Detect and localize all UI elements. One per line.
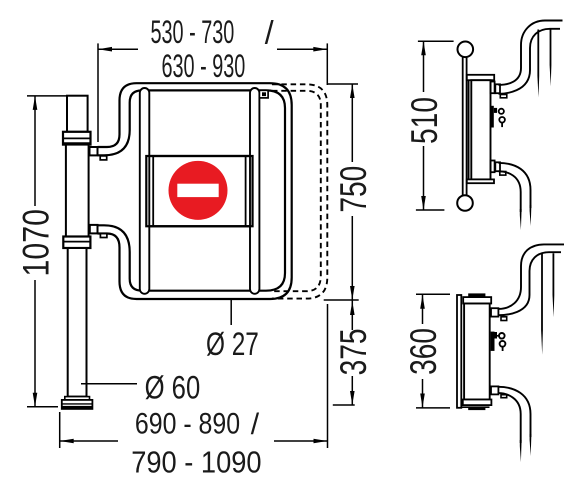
upper bracket bbox=[491, 82, 495, 94]
svg-text:750: 750 bbox=[332, 166, 374, 213]
upper bracket bottom view bbox=[491, 308, 498, 316]
lower arm wall inner bottom view bbox=[498, 393, 520, 443]
lower clip bbox=[500, 172, 506, 176]
dimension 750 bbox=[327, 83, 358, 85]
svg-text:530 - 730: 530 - 730 bbox=[150, 14, 234, 50]
svg-text:/: / bbox=[265, 14, 274, 50]
dimension 360 bbox=[416, 293, 450, 295]
upper clip bottom view bbox=[501, 317, 507, 321]
lock bar bbox=[491, 106, 494, 128]
lower clip bottom view bbox=[501, 395, 507, 398]
post broken lines bottom view bbox=[541, 253, 543, 355]
svg-text:630 - 930: 630 - 930 bbox=[161, 48, 245, 84]
post base plate bbox=[62, 400, 93, 409]
body bbox=[464, 304, 490, 400]
lock bar bottom view bbox=[491, 332, 495, 351]
upper clip bbox=[500, 95, 507, 98]
post middle section bbox=[66, 145, 89, 237]
post base step bbox=[65, 397, 90, 400]
dimension 510 bbox=[418, 40, 454, 42]
post broken lines top view bbox=[537, 30, 539, 98]
gate frame outer outline with swing arms bbox=[98, 83, 292, 299]
ball bottom bbox=[457, 195, 473, 211]
sign board bbox=[146, 156, 252, 226]
top cap black bar bbox=[468, 293, 485, 297]
bottom flange bbox=[467, 179, 494, 183]
dimension 375 bbox=[333, 404, 355, 406]
left inner vertical tube bbox=[140, 88, 150, 294]
post top tube bbox=[67, 96, 88, 132]
lower arm tube wall inner bbox=[499, 171, 521, 212]
label diameter 27 leader bbox=[230, 300, 232, 325]
gate frame inner outline bbox=[98, 90, 286, 290]
upper arm tube wall inner bbox=[499, 29, 561, 94]
bottom edge line bbox=[461, 406, 490, 408]
upper arm wall outer bottom view bbox=[498, 244, 564, 309]
post upper collar bbox=[63, 132, 91, 145]
dashed open-position outline inner bbox=[272, 91, 321, 291]
right inner vertical tube bbox=[250, 88, 259, 294]
post lower collar bbox=[63, 237, 90, 249]
bottom cap bbox=[463, 400, 492, 406]
top flange bbox=[467, 75, 494, 80]
svg-text:Ø 27: Ø 27 bbox=[206, 327, 259, 363]
dimension 530-730 extension right bbox=[326, 43, 328, 85]
dashed open-position outline outer bbox=[272, 84, 327, 298]
key ring bottom view bbox=[499, 333, 505, 339]
dimension 530-730 extension left bbox=[97, 43, 99, 142]
ball top bbox=[458, 42, 474, 58]
latch plate top right bbox=[259, 90, 268, 98]
dimension line 530-730 bbox=[98, 48, 138, 50]
sign board channel lines bbox=[152, 156, 154, 226]
left plate bbox=[457, 295, 461, 408]
post lower section bbox=[68, 248, 87, 397]
top clip bbox=[100, 156, 107, 160]
svg-text:790 - 1090: 790 - 1090 bbox=[131, 446, 261, 480]
label diameter 60 leader bbox=[81, 383, 137, 385]
top hinge bracket bbox=[90, 147, 98, 155]
no-entry sign bbox=[169, 161, 228, 220]
sign board border redraw bbox=[146, 156, 252, 226]
bottom hinge bracket bbox=[90, 225, 98, 234]
dimension line 690-890 bbox=[60, 440, 118, 442]
bottom clip bbox=[100, 234, 107, 238]
svg-text:375: 375 bbox=[332, 328, 374, 375]
svg-text:690 - 890: 690 - 890 bbox=[135, 406, 240, 440]
upper arm tube wall outer bbox=[499, 21, 563, 85]
bottom black bar bbox=[468, 408, 485, 410]
body profile bbox=[471, 80, 490, 179]
svg-text:360: 360 bbox=[402, 328, 444, 375]
lower arm wall outer bottom view bbox=[498, 387, 530, 437]
key ring bbox=[499, 109, 504, 114]
svg-text:Ø 60: Ø 60 bbox=[145, 370, 201, 407]
svg-text:510: 510 bbox=[403, 97, 445, 144]
rod bbox=[463, 57, 467, 196]
svg-text:/: / bbox=[251, 408, 260, 441]
lower bracket bbox=[491, 161, 495, 173]
dimension 1070 bbox=[27, 95, 66, 97]
dimension 690-890 extensions bbox=[59, 412, 61, 448]
upper arm wall inner bottom view bbox=[498, 252, 561, 315]
lower bracket bottom view bbox=[491, 386, 498, 394]
svg-text:1070: 1070 bbox=[15, 209, 57, 276]
top cap bbox=[463, 297, 491, 303]
lower arm tube wall outer bbox=[499, 163, 531, 208]
